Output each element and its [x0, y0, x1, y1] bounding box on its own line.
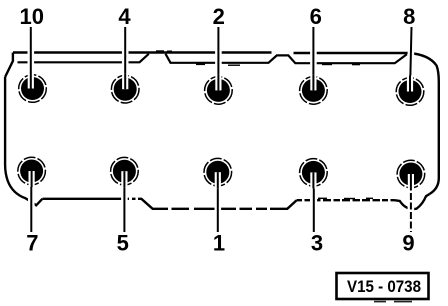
svg-text:1: 1	[213, 231, 225, 256]
head outline top outer line	[13, 51, 409, 54]
svg-text:10: 10	[20, 4, 44, 29]
leader line 4	[122, 27, 129, 89]
svg-text:V15 - 0738: V15 - 0738	[347, 277, 421, 296]
top inner line left segment	[18, 54, 149, 63]
head outline top-right corner and right edge	[409, 53, 439, 194]
svg-text:3: 3	[311, 231, 323, 256]
svg-text:7: 7	[26, 231, 38, 256]
bolt 5	[111, 157, 139, 187]
top-left chamfer	[5, 53, 13, 78]
bolt 6	[300, 74, 328, 104]
bolt 3	[300, 159, 328, 189]
label box V15-0738	[337, 273, 429, 302]
leader line 7	[28, 171, 35, 232]
dash gaps on bottom middle low line	[129, 197, 270, 211]
svg-text:4: 4	[118, 4, 131, 29]
svg-text:6: 6	[310, 4, 322, 29]
svg-text:2: 2	[213, 4, 225, 29]
bolt 9	[397, 160, 425, 190]
combustion scallop under bolt 7 and left lower curve	[5, 77, 42, 205]
bolt 8	[396, 76, 424, 106]
svg-text:9: 9	[402, 231, 414, 256]
bolt 4	[111, 73, 139, 103]
bolt 7	[18, 157, 46, 187]
leader line 9	[408, 174, 415, 232]
svg-text:5: 5	[117, 231, 129, 256]
bottom edge middle low segment	[42, 199, 296, 209]
scan speckles above top line	[156, 50, 373, 199]
leader line 5	[121, 171, 128, 232]
leader line 2	[215, 27, 222, 90]
bolt 10	[19, 73, 47, 103]
combustion scallop under bolt 9	[395, 194, 430, 209]
leader line 1	[215, 172, 222, 232]
leader line 6	[310, 27, 317, 90]
dash gaps on bottom right rough line	[302, 198, 391, 202]
leader line 3	[310, 172, 317, 232]
leader line 10	[27, 27, 34, 89]
svg-text:8: 8	[403, 4, 415, 29]
bottom edge right rough segment	[297, 199, 395, 201]
bolt 1	[204, 158, 232, 188]
top inner line middle segment with hump	[166, 54, 407, 63]
leader line 8	[410, 27, 412, 92]
bolt 2	[205, 74, 233, 104]
